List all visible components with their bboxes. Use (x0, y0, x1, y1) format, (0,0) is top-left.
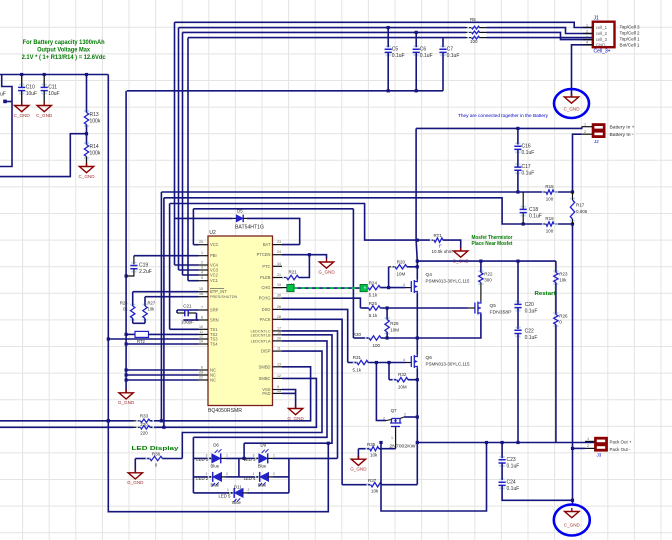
resistor R26 (132, 292, 134, 306)
svg-text:PTC: PTC (262, 264, 270, 269)
transistor Q7 (390, 419, 402, 427)
svg-text:BAT: BAT (263, 242, 271, 247)
svg-text:C5: C5 (392, 46, 399, 52)
svg-text:Top/Cell 1: Top/Cell 1 (620, 36, 640, 42)
wire PCHG (282, 298, 360, 308)
svg-text:Q7: Q7 (391, 408, 398, 413)
svg-text:Q5: Q5 (490, 303, 497, 309)
svg-text:11: 11 (277, 347, 281, 351)
resistor R19 (544, 223, 546, 225)
wire restart rail (417, 260, 556, 262)
svg-text:R20: R20 (397, 259, 406, 264)
svg-text:Battery In +: Battery In + (610, 125, 635, 131)
svg-text:They are connected together in: They are connected together in the Batte… (458, 113, 549, 119)
resistor R23 (555, 261, 557, 272)
capacitor C20 (517, 261, 519, 304)
svg-text:Pack Out +: Pack Out + (610, 439, 632, 445)
svg-text:R37: R37 (368, 478, 377, 483)
svg-text:FDN358P: FDN358P (490, 309, 512, 314)
wire cell bus line 1 (175, 22, 593, 27)
wire Battery- to pack (572, 224, 574, 448)
svg-text:cell_1: cell_1 (596, 25, 608, 30)
LED D6 (193, 457, 211, 459)
wire LED right rail (288, 458, 290, 493)
wire rail TS1 nest (169, 204, 171, 330)
svg-text:2: 2 (248, 488, 250, 492)
svg-text:R33: R33 (140, 414, 149, 419)
svg-text:NC: NC (210, 378, 216, 383)
svg-text:Battery In -: Battery In - (610, 132, 634, 138)
ground C_GND circled bottom (554, 505, 590, 536)
wire Battery- entry (573, 134, 582, 192)
capacitor C23 (501, 443, 503, 459)
svg-text:Output Voltage Max: Output Voltage Max (37, 48, 91, 54)
svg-text:5.1k: 5.1k (352, 368, 361, 373)
resistor R15 (544, 191, 546, 193)
wire cell vertical 2 (178, 28, 180, 270)
svg-text:10k: 10k (148, 307, 156, 312)
ground C_GND under C11 (37, 102, 51, 112)
resistor R36 (135, 458, 149, 460)
ground C_GND circled top (554, 89, 589, 118)
svg-text:cell_2: cell_2 (596, 31, 608, 36)
resistor R27 (144, 297, 146, 306)
svg-text:R22: R22 (484, 272, 493, 277)
svg-text:D6: D6 (213, 443, 219, 448)
ground G_GND PTCEN (319, 259, 333, 269)
wire trunk below pack corner (416, 443, 418, 485)
wire SRP row (160, 192, 162, 421)
svg-text:PRES/SHUTDN: PRES/SHUTDN (210, 295, 237, 299)
wire Pack- (573, 447, 586, 449)
resistor R14 (86, 134, 88, 145)
svg-text:DISP: DISP (261, 349, 271, 354)
svg-text:t°: t° (439, 243, 442, 248)
wire BAT (282, 244, 300, 246)
svg-text:2.2uF: 2.2uF (139, 269, 152, 275)
svg-text:R5: R5 (470, 17, 476, 22)
resistor R37 (342, 484, 371, 486)
svg-text:100k: 100k (90, 151, 101, 157)
svg-text:LED 3: LED 3 (244, 457, 257, 462)
svg-text:1: 1 (586, 23, 588, 27)
svg-text:J1: J1 (594, 16, 600, 22)
svg-text:5: 5 (201, 276, 203, 280)
svg-text:C_GND: C_GND (14, 113, 31, 118)
svg-text:Bot/Cell 1: Bot/Cell 1 (620, 42, 640, 48)
svg-text:300: 300 (484, 278, 492, 283)
svg-text:BAT54HT1G: BAT54HT1G (235, 224, 264, 230)
svg-text:For Battery capacity 1300mAh: For Battery capacity 1300mAh (23, 40, 105, 46)
wire Pack- to gnd circle (572, 448, 574, 504)
svg-text:C7: C7 (447, 46, 454, 52)
wire TS3 (108, 338, 198, 340)
resistor R13 (86, 75, 88, 113)
capacitor C11 (43, 75, 45, 88)
ground G_GND VSS (288, 405, 302, 415)
svg-text:100: 100 (546, 229, 554, 234)
wire gate row Q6 (348, 362, 357, 364)
svg-text:G_GND: G_GND (350, 467, 367, 472)
svg-text:4: 4 (201, 271, 203, 275)
LED D9 (244, 457, 258, 459)
svg-text:Blue: Blue (211, 463, 220, 468)
svg-text:25: 25 (199, 240, 203, 244)
svg-text:0.1uF: 0.1uF (525, 335, 538, 341)
svg-text:BTP_INT: BTP_INT (210, 289, 227, 294)
thermistor RT2 on TS2 (126, 333, 135, 335)
resistor R7 on cell line 4 (466, 37, 472, 39)
wire left-edge stub (0, 75, 12, 167)
svg-text:G_GND: G_GND (118, 400, 135, 405)
svg-text:LEDCNTLB: LEDCNTLB (251, 333, 271, 337)
wire left column join (238, 458, 240, 477)
svg-text:2: 2 (226, 472, 228, 476)
svg-text:R21: R21 (288, 270, 297, 275)
svg-text:10k: 10k (559, 278, 567, 283)
resistor R26b (555, 283, 557, 315)
wire LEDCNTLA row (193, 341, 327, 437)
svg-text:Top/Cell 3: Top/Cell 3 (620, 24, 640, 30)
wire DSG (282, 309, 348, 362)
wire feedback tap (0, 134, 87, 177)
wire TS1 (170, 328, 199, 330)
wire VSS PAD (282, 390, 296, 409)
svg-text:4: 4 (403, 283, 405, 287)
wire R26 R27 join (133, 322, 145, 324)
resistor R24 (364, 287, 366, 289)
svg-text:R36: R36 (152, 452, 161, 457)
LED D8 (193, 476, 211, 478)
svg-text:R30: R30 (353, 332, 362, 337)
ground C_GND under C10 (15, 102, 29, 112)
svg-text:19: 19 (277, 283, 281, 287)
svg-text:Place Near Mosfet: Place Near Mosfet (472, 241, 513, 247)
svg-text:LED 1: LED 1 (196, 457, 209, 462)
svg-text:1: 1 (391, 436, 393, 440)
svg-text:R26: R26 (120, 301, 128, 306)
capacitor C19 (134, 255, 199, 257)
resistor R22 (480, 261, 482, 272)
wire SRN row (163, 198, 165, 427)
svg-text:PSMN013-30YLC,115: PSMN013-30YLC,115 (426, 361, 470, 366)
svg-text:PTCEN: PTCEN (257, 252, 271, 257)
wire VC2 (183, 274, 199, 276)
svg-text:Restart: Restart (535, 291, 556, 297)
svg-text:Mosfet Thermistor: Mosfet Thermistor (472, 235, 513, 241)
svg-text:1: 1 (227, 488, 229, 492)
svg-text:1: 1 (206, 472, 208, 476)
wire gnd return loop (381, 443, 487, 512)
svg-text:22: 22 (199, 376, 203, 380)
op-amp U2 BQ4050 IC body (208, 236, 273, 406)
svg-text:C24: C24 (507, 480, 516, 486)
svg-text:BQ4050RSMR: BQ4050RSMR (208, 408, 242, 414)
ground G_GND under RT1 (454, 248, 468, 258)
svg-text:0.005: 0.005 (576, 209, 588, 214)
svg-text:1: 1 (273, 453, 275, 457)
svg-text:C16: C16 (522, 143, 531, 149)
svg-text:Cell_3+: Cell_3+ (594, 48, 611, 54)
svg-text:100: 100 (373, 343, 381, 348)
wire cell vertical 4 (187, 38, 189, 281)
svg-text:0.1uF: 0.1uF (529, 214, 542, 220)
node CHG highlight square left (287, 284, 294, 291)
svg-text:0.1uF: 0.1uF (525, 309, 538, 315)
svg-text:D11: D11 (234, 485, 242, 490)
transistor Q5 (475, 301, 481, 315)
svg-text:0.1uF: 0.1uF (420, 53, 433, 59)
connector J2 Battery In (592, 124, 605, 138)
svg-text:3: 3 (253, 453, 255, 457)
svg-text:10k: 10k (371, 489, 379, 494)
svg-text:TS4: TS4 (210, 342, 218, 347)
svg-text:2: 2 (201, 261, 203, 265)
wire PRES (145, 296, 199, 298)
svg-text:220: 220 (140, 422, 148, 427)
ground C_GND under R14 (79, 163, 93, 173)
svg-text:GND: GND (596, 42, 606, 47)
ground G_GND R36 (134, 459, 136, 473)
svg-text:4: 4 (586, 41, 588, 45)
wire VCC (193, 244, 198, 246)
svg-text:1: 1 (226, 453, 228, 457)
thermistor RT1 (430, 239, 434, 241)
svg-text:RT1: RT1 (434, 233, 443, 238)
resistor R35 (358, 448, 369, 450)
resistor R6 on cell line 3 (466, 31, 472, 33)
svg-text:R27: R27 (148, 301, 156, 306)
resistor R32 (388, 363, 390, 380)
svg-text:C10: C10 (26, 84, 35, 90)
wire trunk A (108, 75, 328, 512)
svg-text:C19: C19 (139, 262, 148, 268)
svg-text:14: 14 (199, 340, 203, 344)
resistor R20 (388, 267, 390, 288)
connector J1 cell connector (593, 22, 615, 48)
svg-text:C22: C22 (525, 328, 534, 334)
wire PTCEN (282, 255, 327, 259)
svg-text:D9: D9 (260, 443, 266, 448)
svg-text:5.1k: 5.1k (369, 293, 378, 298)
wire cell vertical 3 (182, 32, 184, 275)
resistor R31 (353, 362, 355, 364)
wire Q7 source feed (375, 363, 378, 421)
svg-text:Blue: Blue (258, 463, 267, 468)
svg-text:C21: C21 (183, 303, 192, 308)
svg-text:VCC: VCC (210, 242, 219, 247)
svg-text:100k: 100k (90, 119, 101, 125)
svg-text:5.1k: 5.1k (369, 313, 378, 318)
svg-text:4: 4 (403, 358, 405, 362)
svg-text:R25: R25 (369, 301, 378, 306)
svg-text:2.1V * ( 1+ R13/R14 ) = 12.6Vd: 2.1V * ( 1+ R13/R14 ) = 12.6Vdc (22, 55, 107, 61)
svg-text:2: 2 (404, 413, 406, 417)
wire cell bus line 3 (183, 31, 467, 33)
svg-text:LED 5: LED 5 (219, 494, 232, 499)
svg-text:LEDCNTLA: LEDCNTLA (251, 339, 271, 343)
svg-text:220: 220 (140, 430, 148, 435)
svg-text:R31: R31 (353, 355, 362, 360)
svg-text:Top/Cell 2: Top/Cell 2 (620, 31, 640, 37)
svg-text:R13: R13 (90, 112, 99, 118)
svg-text:30: 30 (277, 294, 281, 298)
svg-text:Blue: Blue (232, 500, 241, 505)
svg-text:C18: C18 (529, 207, 538, 213)
wire GND from J1 pin4 (572, 45, 593, 97)
svg-text:0.1uF: 0.1uF (522, 171, 535, 177)
wire Q5 drain row (417, 314, 481, 338)
svg-text:2: 2 (273, 472, 275, 476)
wire VC3 (179, 269, 199, 271)
svg-text:2: 2 (587, 444, 589, 448)
svg-text:Blue: Blue (258, 482, 267, 487)
svg-text:1: 1 (584, 122, 586, 126)
capacitor C22 (515, 327, 517, 329)
wire SMBC row (0, 426, 134, 428)
svg-text:10M: 10M (397, 272, 406, 277)
resistor R5 on cell line 2 (466, 27, 472, 29)
svg-text:R24: R24 (369, 281, 378, 286)
capacitor C6 (415, 32, 417, 47)
svg-text:LED 4: LED 4 (244, 476, 257, 481)
svg-text:U2: U2 (209, 230, 216, 236)
svg-text:C_GND: C_GND (36, 113, 53, 118)
svg-text:D5: D5 (237, 209, 243, 214)
IC U2 right pin stubs and names (273, 244, 283, 246)
svg-text:Pack Out -: Pack Out - (610, 447, 631, 453)
wire SRN pin (197, 313, 199, 320)
capacitor C10 (21, 75, 23, 88)
svg-text:10.0k ohm: 10.0k ohm (432, 249, 453, 254)
svg-text:C20: C20 (525, 302, 534, 308)
svg-text:1: 1 (201, 251, 203, 255)
transistor Q6 (406, 362, 412, 364)
svg-text:33: 33 (277, 389, 281, 393)
svg-text:100: 100 (546, 197, 554, 202)
svg-text:SMBD: SMBD (259, 364, 271, 369)
svg-text:100: 100 (470, 39, 478, 44)
wire PACK (282, 319, 342, 484)
wire LEDCNTLB row (244, 335, 332, 443)
svg-text:G_GND: G_GND (127, 480, 144, 485)
ground G_GND R35 (357, 449, 359, 459)
svg-text:13: 13 (277, 362, 281, 366)
svg-text:34: 34 (277, 262, 281, 266)
wire LED feed vertical (243, 443, 245, 458)
svg-text:SRP: SRP (210, 308, 219, 313)
svg-text:R23: R23 (559, 272, 568, 277)
svg-text:10k: 10k (370, 453, 378, 458)
wire VC1 (188, 280, 199, 282)
transistor Q4 (406, 287, 412, 289)
wire cell bus line 4 (188, 37, 466, 39)
svg-text:R29: R29 (390, 321, 399, 326)
wire main power trunk (415, 128, 417, 240)
capacitor C17 (517, 150, 519, 167)
svg-text:8: 8 (201, 316, 203, 320)
svg-text:12: 12 (277, 374, 281, 378)
resistor R17 shunt (570, 198, 572, 200)
svg-text:20: 20 (277, 336, 281, 340)
resistor R25 (364, 307, 366, 309)
wire cell bus line 2 (179, 27, 467, 29)
svg-text:CHG: CHG (261, 285, 270, 290)
svg-text:16: 16 (199, 292, 203, 296)
svg-text:3: 3 (586, 35, 588, 39)
svg-text:10: 10 (199, 325, 203, 329)
svg-text:11: 11 (199, 330, 203, 334)
svg-text:R35: R35 (367, 442, 376, 447)
resistor R33 (134, 420, 141, 422)
svg-text:VC2: VC2 (210, 273, 219, 278)
node R13/R14 divider tap (85, 132, 88, 135)
svg-text:23: 23 (277, 240, 281, 244)
wire CHG net dashed highlight (294, 287, 360, 289)
svg-text:10uF: 10uF (26, 91, 37, 97)
ground G_GND trunk B (119, 389, 133, 399)
svg-text:0.1uF: 0.1uF (392, 53, 405, 59)
svg-text:21: 21 (277, 273, 281, 277)
wire SRP pin (177, 309, 199, 311)
capacitor C21 (185, 310, 188, 317)
svg-text:Q6: Q6 (426, 355, 433, 361)
svg-text:3: 3 (206, 453, 208, 457)
svg-text:PCHG: PCHG (259, 296, 271, 301)
resistor R30 (353, 337, 369, 339)
svg-text:R14: R14 (90, 144, 99, 150)
capacitor C18 (522, 192, 524, 209)
wire D5 rect rail (193, 208, 353, 210)
wire CHG stub (273, 287, 288, 289)
svg-text:G_GND: G_GND (318, 269, 335, 274)
wire TS4 (126, 343, 198, 345)
svg-text:C6: C6 (420, 46, 427, 52)
LED D11 (193, 492, 233, 494)
svg-text:R15: R15 (545, 184, 554, 189)
svg-text:SRN: SRN (210, 318, 219, 323)
wire Q7 gate (395, 427, 397, 449)
svg-text:PACK: PACK (260, 317, 271, 322)
capacitor C24 (500, 479, 502, 481)
resistor R21 (282, 277, 287, 279)
wire LED grid left rail (192, 437, 194, 493)
svg-text:C11: C11 (48, 84, 57, 90)
svg-text:2: 2 (383, 417, 385, 421)
svg-text:R32: R32 (398, 372, 407, 377)
wire VC4 (175, 264, 199, 266)
svg-text:10uF: 10uF (48, 91, 59, 97)
capacitor C7 (442, 38, 444, 48)
svg-text:C17: C17 (522, 164, 531, 170)
resistor R29 (386, 308, 388, 320)
svg-text:28: 28 (277, 315, 281, 319)
svg-text:18: 18 (277, 330, 281, 334)
wire NC pins (126, 369, 198, 371)
resistor R34 (134, 426, 141, 428)
svg-text:26: 26 (277, 305, 281, 309)
LED D10 (239, 476, 259, 478)
diode D5 (175, 217, 233, 219)
wire SMBD row (0, 420, 134, 422)
svg-text:PLEB: PLEB (260, 275, 271, 280)
svg-text:J3: J3 (597, 453, 602, 458)
svg-text:1: 1 (587, 437, 589, 441)
svg-text:Q4: Q4 (426, 272, 433, 278)
svg-text:R19: R19 (545, 216, 554, 221)
svg-text:0.1uF: 0.1uF (447, 53, 460, 59)
svg-text:1: 1 (253, 472, 255, 476)
